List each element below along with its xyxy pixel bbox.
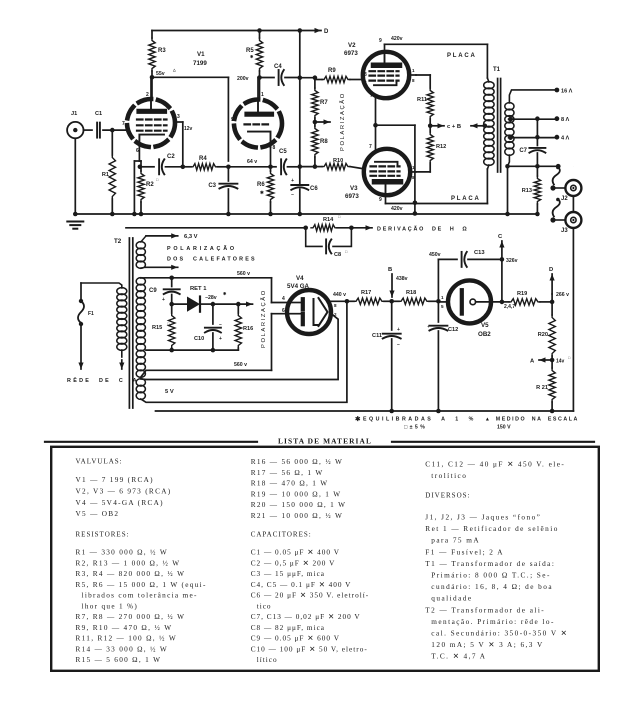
- svg-text:R6: R6: [257, 182, 265, 188]
- svg-text:PLACA: PLACA: [447, 53, 477, 59]
- svg-text:V4: V4: [296, 275, 304, 282]
- svg-text:R18: R18: [406, 290, 416, 296]
- svg-text:C1: C1: [95, 111, 102, 117]
- svg-text:6: 6: [363, 171, 366, 177]
- svg-text:F1 — Fusível; 2 A: F1 — Fusível; 2 A: [425, 548, 504, 556]
- svg-text:▴ MEDIDO NA ESCALA: ▴ MEDIDO NA ESCALA: [485, 417, 579, 423]
- svg-text:+: +: [397, 327, 400, 333]
- svg-text:✱: ✱: [250, 54, 254, 59]
- svg-text:C: C: [498, 234, 503, 240]
- svg-text:□: □: [345, 250, 348, 254]
- svg-text:55v: 55v: [156, 71, 165, 77]
- svg-text:R19 — 10 000 Ω, 1 W: R19 — 10 000 Ω, 1 W: [251, 490, 342, 498]
- svg-text:Ret 1 — Retificador de selênio: Ret 1 — Retificador de selênio: [425, 525, 559, 533]
- svg-text:cundário: 16, 8, 4 Ω; de boa: cundário: 16, 8, 4 Ω; de boa: [431, 583, 553, 591]
- svg-text:EQUILIBRADAS A 1 %: EQUILIBRADAS A 1 %: [363, 417, 476, 423]
- svg-text:Primário: 8 000 Ω T.C.; Se-: Primário: 8 000 Ω T.C.; Se-: [431, 572, 551, 580]
- svg-text:+: +: [162, 297, 165, 303]
- svg-text:9: 9: [379, 38, 382, 44]
- svg-text:V5 — OB2: V5 — OB2: [76, 510, 120, 518]
- svg-text:✱: ✱: [260, 190, 265, 195]
- svg-text:R7, R8 — 270 000 Ω, ½ W: R7, R8 — 270 000 Ω, ½ W: [76, 613, 186, 621]
- svg-text:C9 — 0.05 μF ✕ 600 V: C9 — 0.05 μF ✕ 600 V: [251, 635, 340, 643]
- svg-text:2: 2: [334, 312, 337, 317]
- svg-text:PLACA: PLACA: [451, 196, 481, 202]
- svg-text:cal. Secundário: 350-0-350 V ✕: cal. Secundário: 350-0-350 V ✕: [431, 630, 568, 638]
- svg-text:7: 7: [369, 144, 372, 150]
- svg-text:R 21: R 21: [536, 385, 548, 391]
- svg-text:J3: J3: [561, 228, 568, 234]
- svg-text:POLARIZAÇÃO: POLARIZAÇÃO: [260, 289, 267, 348]
- svg-text:R20: R20: [538, 332, 548, 338]
- svg-text:8 Λ: 8 Λ: [561, 117, 569, 123]
- svg-text:420v: 420v: [391, 206, 403, 212]
- svg-text:1: 1: [261, 92, 264, 98]
- svg-text:R2, R13 — 1 000 Ω, ½ W: R2, R13 — 1 000 Ω, ½ W: [76, 559, 181, 567]
- svg-text:T.C. ✕ 4,7 A: T.C. ✕ 4,7 A: [431, 653, 486, 661]
- svg-text:C1 — 0.05 μF ✕ 400 V: C1 — 0.05 μF ✕ 400 V: [251, 549, 340, 557]
- svg-text:R18 — 470 Ω, 1 W: R18 — 470 Ω, 1 W: [251, 480, 329, 488]
- svg-text:✱: ✱: [355, 415, 361, 423]
- svg-text:C7, C13 — 0,02 μF ✕ 200 V: C7, C13 — 0,02 μF ✕ 200 V: [251, 613, 361, 621]
- svg-text:△: △: [172, 68, 177, 72]
- svg-text:5V4 GA: 5V4 GA: [287, 283, 310, 290]
- svg-text:lhor que 1 %): lhor que 1 %): [82, 602, 139, 610]
- svg-text:C6 — 20 μF ✕ 350 V. eletrolí-: C6 — 20 μF ✕ 350 V. eletrolí-: [251, 592, 369, 600]
- svg-text:R8: R8: [320, 139, 328, 145]
- svg-text:R2: R2: [146, 182, 154, 188]
- svg-text:R4: R4: [199, 156, 207, 162]
- svg-text:438v: 438v: [396, 276, 408, 282]
- svg-text:R12: R12: [436, 144, 446, 150]
- svg-text:−: −: [397, 342, 400, 348]
- svg-text:7: 7: [122, 121, 125, 127]
- svg-text:−: −: [219, 322, 222, 328]
- svg-text:librados com tolerância me-: librados com tolerância me-: [82, 592, 198, 600]
- svg-text:4 Λ: 4 Λ: [561, 136, 569, 142]
- svg-text:LISTA DE MATERIAL: LISTA DE MATERIAL: [278, 437, 372, 446]
- svg-text:A: A: [530, 359, 535, 365]
- svg-text:RET 1: RET 1: [190, 286, 207, 292]
- svg-text:mentação. Primário: rêde lo-: mentação. Primário: rêde lo-: [431, 618, 555, 626]
- svg-text:R17: R17: [361, 290, 371, 296]
- svg-text:450v: 450v: [429, 252, 441, 258]
- svg-text:J1, J2, J3 — Jaques “fono”: J1, J2, J3 — Jaques “fono”: [425, 514, 541, 522]
- svg-text:R14: R14: [323, 217, 334, 223]
- svg-text:CAPACITORES:: CAPACITORES:: [251, 530, 312, 538]
- svg-text:5: 5: [441, 304, 444, 309]
- svg-text:3: 3: [177, 114, 180, 120]
- svg-text:14v: 14v: [556, 359, 565, 365]
- svg-text:T1: T1: [493, 67, 501, 73]
- svg-text:R9: R9: [328, 68, 336, 74]
- svg-text:V5: V5: [481, 322, 489, 329]
- svg-text:F1: F1: [88, 311, 94, 317]
- svg-text:J2: J2: [561, 196, 568, 202]
- svg-text:6,3 V: 6,3 V: [184, 234, 198, 240]
- svg-text:POLARIZAÇÃO: POLARIZAÇÃO: [339, 92, 346, 151]
- svg-text:64 v: 64 v: [247, 159, 257, 165]
- svg-text:V1 — 7 199 (RCA): V1 — 7 199 (RCA): [76, 476, 154, 484]
- svg-text:V2, V3 — 6 973 (RCA): V2, V3 — 6 973 (RCA): [76, 487, 172, 495]
- svg-text:4: 4: [282, 296, 285, 302]
- svg-text:R15 — 5 600 Ω, 1 W: R15 — 5 600 Ω, 1 W: [76, 656, 162, 664]
- svg-text:D: D: [324, 29, 329, 35]
- svg-text:B: B: [388, 267, 392, 273]
- svg-text:C11, C12 — 40 μF ✕ 450 V. ele-: C11, C12 — 40 μF ✕ 450 V. ele-: [425, 460, 565, 468]
- svg-text:C6: C6: [310, 186, 318, 192]
- svg-text:R15: R15: [152, 325, 162, 331]
- svg-text:1: 1: [441, 295, 444, 300]
- svg-text:7199: 7199: [193, 60, 207, 67]
- svg-text:16 Λ: 16 Λ: [561, 89, 573, 95]
- svg-text:8: 8: [273, 145, 276, 151]
- svg-text:7: 7: [370, 93, 373, 99]
- svg-text:1: 1: [412, 68, 415, 73]
- svg-text:V3: V3: [350, 185, 358, 192]
- svg-text:C11: C11: [372, 333, 382, 339]
- svg-text:−: −: [291, 192, 294, 198]
- svg-text:POLARIZAÇÃO: POLARIZAÇÃO: [167, 245, 237, 252]
- svg-text:T2: T2: [114, 238, 122, 245]
- svg-text:R1 — 330 000 Ω, ½ W: R1 — 330 000 Ω, ½ W: [76, 549, 169, 557]
- svg-text:440 v: 440 v: [333, 292, 346, 298]
- svg-text:9: 9: [379, 197, 382, 203]
- svg-text:C5: C5: [279, 149, 287, 155]
- svg-text:R19: R19: [517, 291, 527, 297]
- svg-text:560 v: 560 v: [237, 271, 250, 277]
- svg-text:3: 3: [363, 164, 366, 170]
- svg-text:C8 — 82 μμF, mica: C8 — 82 μμF, mica: [251, 624, 325, 632]
- svg-text:+: +: [219, 336, 222, 342]
- svg-text:VALVULAS:: VALVULAS:: [76, 458, 123, 466]
- svg-text:R17 — 56 Ω, 1 W: R17 — 56 Ω, 1 W: [251, 469, 324, 477]
- svg-text:C3 — 15 μμF, mica: C3 — 15 μμF, mica: [251, 570, 325, 578]
- svg-text:C4: C4: [274, 64, 282, 70]
- svg-text:C7: C7: [519, 148, 527, 154]
- svg-text:R3: R3: [158, 48, 166, 54]
- svg-text:C8: C8: [334, 252, 341, 258]
- svg-text:C10 — 100 μF ✕ 50 V, eletro-: C10 — 100 μF ✕ 50 V, eletro-: [251, 645, 368, 653]
- svg-text:qualidade: qualidade: [431, 595, 472, 603]
- svg-text:J1: J1: [71, 111, 77, 117]
- svg-text:6: 6: [136, 148, 139, 154]
- svg-text:R20 — 150 000 Ω, 1 W: R20 — 150 000 Ω, 1 W: [251, 501, 347, 509]
- svg-text:R11, R12 — 100 Ω, ½ W: R11, R12 — 100 Ω, ½ W: [76, 635, 178, 643]
- svg-text:c + B: c + B: [447, 124, 461, 130]
- svg-text:8: 8: [412, 175, 415, 180]
- svg-text:T1 — Transformador de saída:: T1 — Transformador de saída:: [425, 560, 555, 568]
- svg-text:R13: R13: [522, 188, 532, 194]
- svg-text:6: 6: [282, 308, 285, 314]
- svg-text:tico: tico: [257, 602, 272, 610]
- svg-text:□: □: [338, 215, 341, 219]
- svg-text:C12: C12: [448, 327, 458, 333]
- svg-text:+: +: [427, 325, 430, 330]
- svg-text:R5, R6 — 15 000 Ω, 1 W (equi-: R5, R6 — 15 000 Ω, 1 W (equi-: [76, 581, 207, 589]
- svg-text:R9, R10 — 470 Ω, ½ W: R9, R10 — 470 Ω, ½ W: [76, 624, 173, 632]
- svg-text:420v: 420v: [391, 36, 403, 42]
- svg-text:C4, C5 — 0.1 μF ✕ 400 V: C4, C5 — 0.1 μF ✕ 400 V: [251, 581, 352, 589]
- svg-text:R10: R10: [333, 158, 343, 164]
- svg-text:R3, R4 — 820 000 Ω, ½ W: R3, R4 — 820 000 Ω, ½ W: [76, 570, 186, 578]
- svg-text:DERIVAÇÃO DE H Ω: DERIVAÇÃO DE H Ω: [377, 226, 468, 233]
- svg-text:C2: C2: [167, 154, 175, 160]
- svg-text:326v: 326v: [506, 258, 518, 264]
- svg-text:R16 — 56 000 Ω, ½ W: R16 — 56 000 Ω, ½ W: [251, 458, 344, 466]
- svg-text:5 V: 5 V: [165, 389, 174, 395]
- svg-text:6973: 6973: [344, 50, 358, 57]
- svg-text:560 v: 560 v: [234, 362, 247, 368]
- svg-text:V2: V2: [348, 42, 356, 49]
- svg-text:+: +: [291, 178, 294, 184]
- svg-text:120 mA; 5 V ✕ 3 A; 6,3 V: 120 mA; 5 V ✕ 3 A; 6,3 V: [431, 641, 543, 649]
- svg-text:R11: R11: [417, 97, 427, 103]
- svg-text:V4 — 5V4-GA (RCA): V4 — 5V4-GA (RCA): [76, 499, 164, 507]
- svg-text:R16: R16: [243, 326, 253, 332]
- svg-text:C3: C3: [208, 183, 216, 189]
- svg-text:DIVERSOS:: DIVERSOS:: [425, 492, 470, 500]
- svg-text:RESISTORES:: RESISTORES:: [76, 530, 130, 538]
- svg-text:C10: C10: [194, 336, 204, 342]
- svg-text:C13: C13: [474, 250, 485, 256]
- svg-text:6973: 6973: [345, 193, 359, 200]
- svg-text:8: 8: [412, 78, 415, 83]
- svg-text:6: 6: [364, 81, 367, 87]
- svg-text:−28v: −28v: [205, 295, 217, 301]
- svg-text:□ ± 5 %: □ ± 5 %: [404, 425, 425, 431]
- svg-text:150 V: 150 V: [497, 425, 511, 431]
- svg-text:8: 8: [334, 303, 337, 308]
- svg-text:C2 — 0,5 μF ✕ 200 V: C2 — 0,5 μF ✕ 200 V: [251, 559, 336, 567]
- svg-text:T2 — Transformador de ali-: T2 — Transformador de ali-: [425, 606, 545, 614]
- svg-text:R1: R1: [102, 172, 109, 178]
- svg-text:□: □: [156, 178, 159, 182]
- svg-text:lítico: lítico: [257, 656, 278, 664]
- svg-text:R7: R7: [320, 100, 328, 106]
- svg-text:trolítico: trolítico: [431, 472, 467, 480]
- svg-text:1: 1: [412, 165, 415, 170]
- svg-text:V1: V1: [197, 51, 205, 58]
- svg-text:266 v: 266 v: [556, 292, 569, 298]
- svg-text:✱: ✱: [223, 291, 227, 296]
- svg-text:R14 — 33 000 Ω, ½ W: R14 — 33 000 Ω, ½ W: [76, 645, 169, 653]
- svg-text:DOS CALEFATORES: DOS CALEFATORES: [167, 257, 257, 263]
- svg-text:RÊDE DE C A: RÊDE DE C A: [67, 376, 139, 384]
- svg-text:200v: 200v: [237, 76, 249, 82]
- svg-text:OB2: OB2: [478, 331, 491, 338]
- svg-text:12v: 12v: [184, 126, 193, 132]
- svg-text:C9: C9: [149, 288, 157, 294]
- svg-text:3: 3: [364, 72, 367, 78]
- svg-text:□: □: [568, 356, 571, 360]
- svg-text:D: D: [549, 267, 553, 273]
- svg-text:R21 — 10 000 Ω, ½ W: R21 — 10 000 Ω, ½ W: [251, 512, 344, 520]
- svg-text:2,4,7: 2,4,7: [504, 304, 515, 310]
- svg-text:para 75 mA: para 75 mA: [431, 537, 480, 545]
